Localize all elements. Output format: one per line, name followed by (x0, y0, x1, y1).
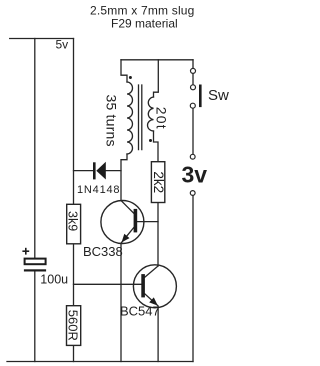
svg-text:2k2: 2k2 (151, 171, 166, 193)
svg-text:Sw: Sw (208, 87, 229, 104)
svg-text:20t: 20t (154, 107, 170, 130)
svg-text:560R: 560R (65, 310, 80, 341)
svg-text:3k9: 3k9 (66, 211, 80, 231)
svg-text:35 turns: 35 turns (104, 95, 120, 147)
svg-text:5v: 5v (56, 38, 69, 52)
svg-text:F29 material: F29 material (111, 16, 178, 30)
svg-text:3v: 3v (182, 162, 208, 188)
svg-text:100u: 100u (40, 272, 68, 286)
svg-text:BC338: BC338 (83, 244, 123, 259)
svg-text:1N4148: 1N4148 (77, 184, 120, 196)
svg-text:BC547: BC547 (120, 304, 160, 319)
